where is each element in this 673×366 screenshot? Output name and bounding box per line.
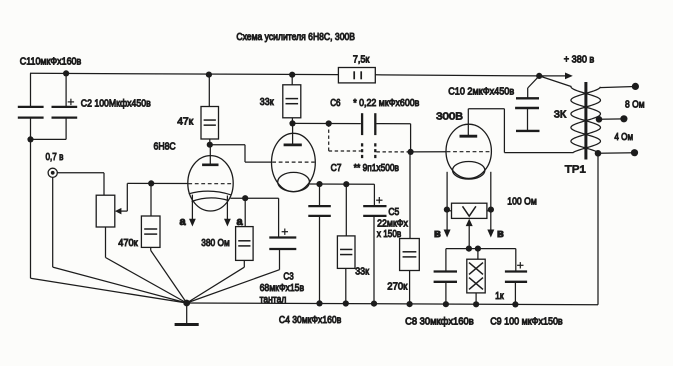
svg-text:С7: С7 <box>331 162 342 174</box>
svg-text:0,7 в: 0,7 в <box>46 151 64 163</box>
svg-text:С4 30мкФх160в: С4 30мкФх160в <box>279 314 342 326</box>
svg-text:4 Ом: 4 Ом <box>614 131 633 143</box>
svg-text:1к: 1к <box>495 290 504 302</box>
svg-text:в: в <box>434 228 441 240</box>
svg-text:С110мкФх160в: С110мкФх160в <box>20 55 82 67</box>
svg-text:С8 30мкфх160в: С8 30мкфх160в <box>405 315 474 327</box>
svg-text:ТР1: ТР1 <box>565 164 586 176</box>
svg-text:а: а <box>180 216 187 228</box>
svg-text:С3: С3 <box>283 270 293 282</box>
svg-text:8 Ом: 8 Ом <box>625 98 645 110</box>
svg-text:С2 100Мкфх450в: С2 100Мкфх450в <box>81 97 151 109</box>
svg-text:С9 100 мкФх150в: С9 100 мкФх150в <box>490 315 563 327</box>
svg-text:тантал: тантал <box>260 293 287 305</box>
svg-text:100 Ом: 100 Ом <box>507 195 537 207</box>
svg-text:С5: С5 <box>388 206 399 218</box>
svg-text:Схема усилителя 6Н8С, 300В: Схема усилителя 6Н8С, 300В <box>236 31 355 43</box>
svg-text:270к: 270к <box>387 281 407 293</box>
svg-text:* 0,22 мкФх600в: * 0,22 мкФх600в <box>353 97 420 109</box>
svg-text:в: в <box>497 228 504 240</box>
svg-text:3К: 3К <box>554 109 567 121</box>
svg-text:300В: 300В <box>436 111 463 123</box>
svg-text:х 150в: х 150в <box>377 228 402 240</box>
svg-text:7,5к: 7,5к <box>353 53 370 65</box>
svg-text:** 9п1х500в: ** 9п1х500в <box>354 162 400 174</box>
svg-text:47к: 47к <box>177 115 193 127</box>
svg-text:+ 380 в: + 380 в <box>564 54 595 66</box>
svg-text:33к: 33к <box>355 266 369 278</box>
svg-text:6Н8С: 6Н8С <box>154 140 177 152</box>
svg-text:380 Ом: 380 Ом <box>201 237 230 249</box>
svg-text:С6: С6 <box>330 97 341 109</box>
svg-text:С10 2мкФх450в: С10 2мкФх450в <box>448 85 514 97</box>
svg-text:а: а <box>237 216 244 228</box>
svg-text:33к: 33к <box>260 96 274 108</box>
svg-text:470к: 470к <box>118 237 138 249</box>
svg-text:68мкФх15в: 68мкФх15в <box>260 282 305 294</box>
